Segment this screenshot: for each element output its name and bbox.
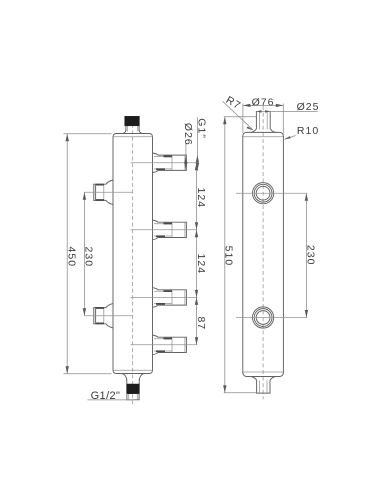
dimension chain 124/124/87 [195,163,207,345]
svg-text:230: 230 [305,245,317,266]
svg-text:Ø76: Ø76 [252,97,275,109]
svg-text:450: 450 [66,247,78,268]
circle center extension lines [236,193,307,317]
top crown [243,132,284,136]
dimension 450 [64,134,112,374]
top seam [243,136,283,138]
bottom seam [243,371,283,373]
left view centerline [132,117,134,404]
dimension 510 [223,117,257,393]
right view centerline [262,106,264,399]
black drain fitting [127,384,140,394]
right port 2 [153,220,187,240]
upper side port circle [253,183,274,204]
label R7 with leader [222,94,253,130]
dimension Ø25 [256,101,319,113]
svg-text:510: 510 [223,246,235,267]
bottom seam line [113,369,152,371]
label Ø26 with dimension line [182,123,194,170]
port centerlines to dimension chain [84,163,197,345]
left port 1 (top) [94,180,113,205]
lower side port circle [253,307,274,328]
top seam line [113,136,152,138]
bottom crown [243,372,284,376]
bottom drain neck [122,374,145,385]
left view body outline [113,134,153,374]
dimension 230 left [83,192,95,315]
label G1" with dimension line [195,118,207,171]
svg-text:87: 87 [195,316,207,330]
svg-text:230: 230 [83,247,95,268]
black vent cap [125,116,140,126]
left port 2 (bottom) [94,303,113,328]
svg-text:124: 124 [195,188,207,209]
dimension Ø76 [243,97,283,134]
drain tail below black [127,394,139,400]
svg-text:Ø26: Ø26 [182,123,194,146]
svg-text:Ø25: Ø25 [297,101,320,113]
svg-text:G1": G1" [195,118,207,139]
neck with R7 flare [251,111,256,132]
label G1/2" with leader [88,390,134,402]
right port 3 [153,288,187,308]
right port 4 (bottom) [153,335,187,355]
label R10 with leader [284,125,319,139]
svg-text:124: 124 [195,254,207,275]
bottom neck [252,377,257,394]
right view body outline [243,111,284,393]
top vent neck [121,126,143,134]
svg-text:R10: R10 [297,125,319,137]
dimension 230 right [305,193,317,317]
right port 1 (top) [153,153,187,173]
